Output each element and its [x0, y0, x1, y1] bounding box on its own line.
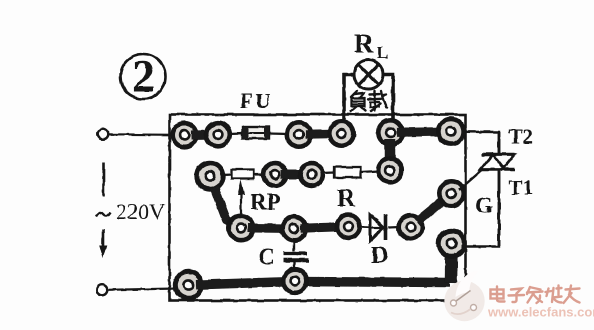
trace B2-B3: [281, 170, 312, 179]
pad D1: [175, 272, 201, 298]
pad B1: [197, 163, 223, 189]
trace C1-C2: [248, 224, 295, 234]
svg-text:2: 2: [132, 51, 155, 102]
wire lamp left lead: [344, 75, 355, 121]
trace bottom row D1-D2-corner: [196, 282, 450, 285]
svg-text:L: L: [377, 43, 388, 62]
wire RP to B2: [254, 173, 266, 175]
watermark text dianzifashaoyou: [491, 286, 580, 304]
circuit board outline: [170, 115, 466, 301]
fuse FU body: [243, 127, 270, 139]
trace A3-A4: [306, 129, 342, 139]
pad B3: [300, 163, 323, 186]
wire lamp right lead: [383, 75, 394, 121]
pad A2: [206, 123, 230, 147]
pad C3: [337, 215, 360, 238]
wire from top terminal to board: [109, 133, 176, 136]
pad B4: [378, 159, 402, 183]
potentiometer RP body: [232, 170, 254, 179]
trace B1 down to C1: [214, 187, 241, 228]
svg-text:T2: T2: [509, 125, 534, 149]
wire A2 to fuse: [229, 132, 243, 135]
pad C4: [399, 215, 423, 239]
trace A5-A6: [397, 127, 451, 137]
AC source arrow down: [99, 229, 107, 258]
capacitor C lead top: [293, 238, 295, 252]
svg-text:R: R: [354, 29, 374, 59]
trace A5 down to B4: [385, 139, 396, 171]
wire triac T1 to D3: [461, 170, 499, 247]
svg-text:D: D: [371, 243, 388, 269]
label R: [337, 185, 356, 212]
terminal bottom left: [97, 285, 108, 296]
pad A1: [173, 123, 197, 147]
triac gate wire to C5: [459, 170, 482, 190]
svg-text:RP: RP: [250, 190, 281, 215]
RP wiper arrow: [238, 180, 245, 219]
pad A4: [329, 121, 353, 145]
svg-text:R: R: [337, 185, 356, 212]
pad C5: [439, 181, 463, 205]
trace corner up to D3: [445, 244, 458, 284]
capacitor C plates: [283, 254, 309, 261]
wire fuse to A3: [270, 132, 289, 135]
triac V: [480, 132, 515, 246]
wire B1 to RP: [222, 173, 233, 176]
label T1: [509, 176, 534, 200]
label ~220V: [96, 199, 165, 224]
label D: [371, 243, 388, 269]
trace C2-C3: [301, 227, 349, 229]
wire from bottom terminal to board: [108, 289, 178, 290]
svg-text:G: G: [475, 193, 493, 218]
pad B2: [264, 163, 287, 186]
terminal top left: [98, 129, 109, 140]
watermark logo: [444, 271, 484, 322]
svg-text:C: C: [258, 245, 275, 271]
svg-text:FU: FU: [240, 89, 273, 113]
watermark url: [487, 305, 594, 320]
svg-text:T1: T1: [509, 176, 534, 200]
label load (fuzai): [351, 91, 387, 111]
pad A6: [438, 119, 463, 144]
label C: [258, 245, 275, 271]
wire diode to C4: [388, 226, 400, 229]
svg-text:www.elecfans.com: www.elecfans.com: [487, 305, 594, 320]
pad D2: [283, 269, 307, 293]
AC source line upper: [102, 163, 105, 196]
wire A6 to triac T2: [463, 132, 499, 154]
wire B3 to R: [322, 171, 335, 174]
wire R to B4: [361, 171, 380, 172]
pad D3: [439, 231, 465, 257]
label RL: [354, 29, 388, 63]
lamp RL: [354, 60, 383, 89]
capacitor C lead bottom: [293, 262, 295, 281]
diode D: [370, 214, 386, 241]
pad A5: [378, 120, 402, 144]
label G: [475, 193, 493, 218]
pad C2: [282, 217, 306, 241]
resistor R body: [334, 167, 361, 178]
label FU: [240, 89, 273, 113]
pad A3: [287, 122, 311, 146]
figure number 2: [121, 51, 166, 102]
label RP: [250, 190, 281, 215]
svg-text:220V: 220V: [116, 199, 165, 224]
trace A1-A2: [191, 130, 218, 140]
pad C1: [229, 216, 253, 240]
wire C3 to diode: [359, 226, 370, 229]
label T2: [509, 125, 534, 149]
trace C4 up to C5: [417, 194, 452, 222]
